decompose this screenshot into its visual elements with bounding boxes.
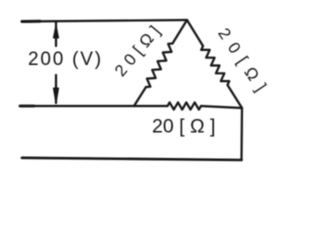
wire right vertical drop [240,108,243,160]
resistor R2 right side 20[Ω] [187,20,242,108]
svg-text:20 [ Ω ]: 20 [ Ω ] [152,116,215,138]
voltage dimension arrow lower [53,75,58,104]
wire middle-left line [20,105,168,107]
resistor R3 bottom 20[Ω] [168,102,243,109]
svg-text:20[Ω]: 20[Ω] [214,25,274,101]
svg-text:20[Ω]: 20[Ω] [112,19,167,80]
wire top line (phase to apex) [22,20,187,22]
wire bottom rail [22,158,242,160]
voltage dimension arrow upper [53,22,58,46]
svg-text:200 (V): 200 (V) [28,49,103,70]
resistor R1 left side 20[Ω] [134,20,187,106]
